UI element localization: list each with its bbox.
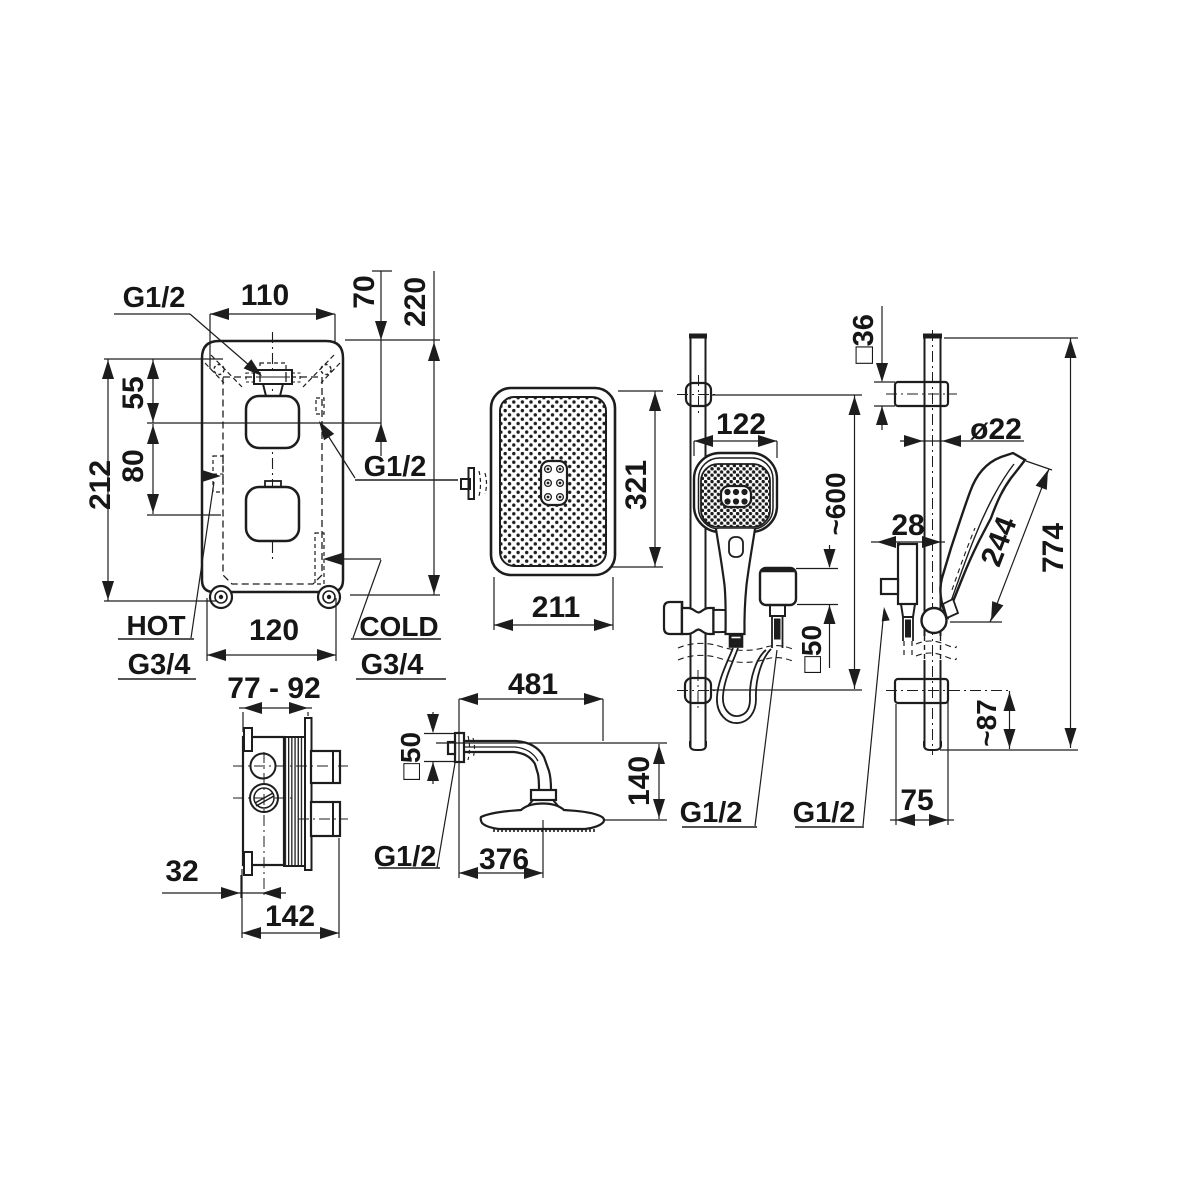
foot left G3/4 [210, 586, 232, 608]
dim sq50 arm label [395, 732, 426, 780]
label G3/4 left [118, 649, 196, 681]
foot right G3/4 [318, 586, 340, 608]
svg-text:G3/4: G3/4 [361, 649, 424, 681]
hand shower jets [724, 489, 747, 505]
svg-text:32: 32 [165, 855, 198, 888]
dim 211 line [494, 577, 613, 631]
dim 220 label [399, 277, 432, 327]
leader HOT [191, 470, 221, 638]
faceplate center dash-dot line [272, 332, 274, 563]
leader G1/2 arm [437, 763, 455, 868]
svg-text:G1/2: G1/2 [364, 451, 427, 483]
dim sq50 line [796, 545, 838, 668]
hand shower side hidden line [952, 528, 975, 590]
ref line 220 bottom [350, 594, 440, 596]
corner gusset left [205, 355, 242, 387]
rail side bottom cap [924, 741, 941, 750]
dim 80 line [147, 424, 159, 514]
overhead shower jet panel [541, 461, 567, 505]
valve tab top [244, 728, 252, 751]
top inlet connector G1/2 [246, 363, 300, 396]
dim 376 line [459, 699, 543, 879]
dim 142 line [242, 838, 339, 939]
ref line knob2 center [147, 514, 221, 516]
svg-text:□50: □50 [796, 625, 827, 673]
svg-text:140: 140 [623, 756, 656, 806]
faceplate inner dashed box [223, 377, 322, 584]
dim 75 label [900, 784, 933, 817]
svg-text:120: 120 [249, 614, 299, 647]
dim ~87 label [971, 699, 1002, 747]
faceplate outer plate [202, 341, 343, 592]
dim 70 label [348, 275, 381, 308]
valve cartridge stripes [284, 737, 305, 866]
svg-text:□36: □36 [848, 314, 880, 364]
rail slider knob [664, 601, 682, 635]
arm cone [527, 800, 559, 807]
svg-text:481: 481 [508, 668, 558, 701]
hand shower handle [716, 529, 755, 634]
dim sq50 arm line [424, 712, 455, 784]
arm hidden threads [468, 736, 475, 760]
outlet nut side [901, 604, 915, 641]
hand shower pivot [922, 599, 959, 633]
dim 244 label [975, 512, 1024, 571]
ref line y601 [104, 600, 216, 602]
rail top bracket cross side [886, 393, 957, 395]
rail side tube [924, 330, 942, 755]
svg-text:55: 55 [117, 376, 150, 409]
hose [717, 648, 771, 723]
dim 220 line [428, 271, 440, 595]
dim 244 line [950, 461, 1052, 622]
label G1/2 rail-side [793, 797, 864, 829]
hand shower jet panel [721, 486, 751, 507]
rail slider clamp [682, 607, 714, 635]
svg-text:212: 212 [84, 460, 117, 510]
volume knob [246, 481, 299, 541]
svg-text:~87: ~87 [971, 699, 1002, 747]
rail break lines side [916, 641, 956, 660]
dim 28 label [891, 509, 924, 542]
temperature knob [246, 396, 299, 448]
rail bottom bracket front [685, 678, 711, 703]
svg-text:~600: ~600 [820, 472, 851, 535]
dim 122 label [716, 408, 766, 441]
hand shower side face line [950, 464, 1014, 604]
dim sq50 label [796, 625, 827, 673]
dim 211 label [532, 591, 580, 624]
valve tab bottom [244, 852, 252, 875]
svg-text:G1/2: G1/2 [680, 797, 743, 829]
dim 321 label [620, 460, 653, 510]
right side stub dashed lower [315, 533, 324, 584]
svg-text:70: 70 [348, 275, 381, 308]
overhead shower ball joint [461, 468, 487, 499]
dim 70 line [372, 271, 392, 456]
valve circle screw [250, 784, 278, 812]
valve body box [243, 737, 284, 865]
valve circle plain [251, 754, 276, 779]
leader COLD [323, 553, 381, 638]
rail slider cup [714, 610, 742, 632]
ref line plate top right [345, 339, 440, 341]
overhead shower body [491, 388, 615, 575]
svg-text:80: 80 [117, 449, 150, 482]
hand shower head rim [699, 458, 774, 529]
arm shower head side [481, 804, 604, 830]
label HOT [118, 610, 194, 641]
svg-text:COLD: COLD [359, 611, 438, 642]
svg-text:28: 28 [891, 509, 924, 542]
dim ~600 label [820, 472, 851, 535]
hand shower side profile [940, 453, 1025, 617]
dim 32 line [162, 875, 286, 899]
hand shower button [729, 537, 743, 557]
wall outlet front [760, 568, 796, 605]
valve wall plate [305, 718, 312, 870]
dim ~600 line [712, 395, 862, 690]
valve stub lower [311, 802, 340, 836]
svg-text:211: 211 [532, 591, 580, 624]
dim 120 label [249, 614, 299, 647]
ref line y359 [104, 358, 223, 360]
svg-text:□50: □50 [395, 732, 426, 780]
label G1/2 top-left [123, 282, 186, 314]
dim 774 label [1037, 523, 1070, 573]
label G1/2 plate-right [355, 451, 458, 483]
leader G1/2 rail-side [863, 607, 890, 826]
rail bottom bracket side [895, 679, 948, 703]
svg-text:774: 774 [1037, 523, 1070, 573]
rail top bracket side [895, 382, 948, 406]
dim 77-92 label [227, 672, 320, 705]
rail bottom bracket cross [677, 670, 719, 711]
dim dia22 label [970, 413, 1022, 446]
wall outlet nut [770, 605, 785, 648]
dim 774 line [940, 338, 1078, 750]
dim 140 label [623, 756, 656, 806]
dim 481 label [508, 668, 558, 701]
svg-text:142: 142 [265, 900, 315, 933]
leader G1/2 plate-right [319, 421, 355, 478]
dim 55 line [147, 359, 159, 423]
svg-text:G1/2: G1/2 [123, 282, 186, 314]
label COLD [351, 611, 441, 642]
rail top bracket front [686, 383, 711, 406]
left side stub dashed [213, 456, 223, 492]
dim sq36 label [848, 314, 880, 364]
rail front tube [690, 334, 707, 748]
dim 212 line [102, 359, 114, 601]
dim 32 label [165, 855, 198, 888]
dim 481 line [459, 693, 603, 741]
svg-text:77 - 92: 77 - 92 [227, 672, 320, 705]
rail bottom bracket cross side [886, 690, 1012, 692]
dim 80 label [117, 449, 150, 482]
arm wall flange [448, 733, 464, 762]
leader G1/2 rail-front [755, 650, 777, 826]
dim 376 label [479, 843, 529, 876]
dim 142 label [265, 900, 315, 933]
rail front bottom cap [690, 741, 706, 750]
leader G1/2 top-left [114, 314, 262, 376]
dim 321 line [612, 391, 663, 567]
rail top bracket cross [677, 375, 719, 414]
label G3/4 right [356, 649, 446, 681]
dim 110 line [210, 308, 335, 369]
hand shower head front [694, 453, 777, 532]
svg-text:75: 75 [900, 784, 933, 817]
dim 122 line [694, 435, 777, 458]
dim 55 label [117, 376, 150, 409]
outlet block side [898, 544, 917, 604]
dim 75 line [890, 694, 954, 826]
svg-text:321: 321 [620, 460, 653, 510]
dim 77-92 line [239, 702, 312, 732]
dim 212 label [84, 460, 117, 510]
arm head nozzles [494, 829, 594, 832]
dim sq36 line [874, 306, 895, 430]
hand shower face [701, 464, 770, 527]
ref line knob1 center [147, 422, 381, 424]
label G1/2 arm [374, 841, 440, 873]
arm collar [531, 790, 556, 800]
label G1/2 rail-front [680, 797, 757, 829]
hose nut front [730, 634, 743, 647]
outlet knob side [881, 579, 898, 594]
svg-text:G1/2: G1/2 [793, 797, 856, 829]
dim 120 line [207, 598, 336, 661]
corner gusset right [303, 355, 340, 387]
dim 28 line [871, 536, 945, 548]
overhead shower face [500, 397, 606, 566]
valve centerlines [233, 752, 348, 898]
overhead shower jets [545, 466, 564, 501]
dim 110 label [241, 279, 289, 312]
valve stub upper [311, 751, 340, 783]
dim dia22 line [900, 435, 1024, 447]
dim ~87 line [1004, 691, 1016, 749]
dim 140 line [436, 743, 667, 820]
svg-text:G3/4: G3/4 [128, 649, 191, 681]
svg-text:HOT: HOT [126, 610, 185, 641]
rail break lines front [678, 643, 795, 662]
arm tube [464, 741, 551, 790]
right side stub dashed upper [316, 398, 324, 414]
svg-text:220: 220 [399, 277, 432, 327]
svg-text:376: 376 [479, 843, 529, 876]
outlet hose dashes side [904, 641, 912, 657]
svg-text:110: 110 [241, 279, 289, 312]
